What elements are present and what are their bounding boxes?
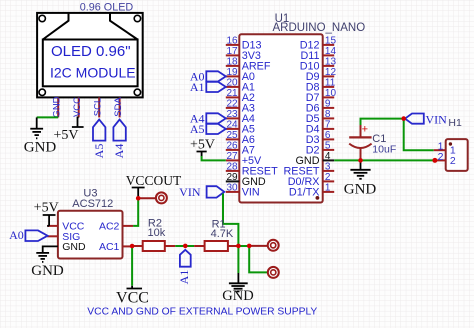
svg-text:ARDUINO_NANO: ARDUINO_NANO <box>273 22 366 34</box>
svg-text:24: 24 <box>226 119 238 130</box>
refdes U3 / ACS712 label <box>72 187 113 210</box>
U1 origin dot <box>316 196 320 200</box>
svg-text:4: 4 <box>325 151 331 162</box>
svg-text:29: 29 <box>226 172 238 183</box>
svg-text:1: 1 <box>325 182 331 193</box>
wire OLED GND to ground <box>37 116 59 118</box>
connector H1 <box>434 117 468 171</box>
svg-text:14: 14 <box>325 46 337 57</box>
svg-text:H1: H1 <box>448 117 462 129</box>
net flag A0 (U1 pin 19) <box>190 70 226 84</box>
wire R1 node down to ground <box>237 246 239 273</box>
U1 left pin numbers 16-30 <box>226 35 238 193</box>
svg-text:17: 17 <box>226 46 238 57</box>
svg-text:9: 9 <box>325 98 331 109</box>
wire +5V to U1 pin 27 <box>202 156 226 160</box>
svg-text:30: 30 <box>226 182 238 193</box>
net flag A0 (U3 SIG) <box>9 228 47 242</box>
svg-text:10: 10 <box>325 88 337 99</box>
power flag VCC <box>116 286 149 307</box>
net flag A1 (node) <box>177 250 191 285</box>
OLED module label "0.96 OLED" <box>80 2 134 14</box>
svg-text:16: 16 <box>226 35 238 46</box>
U1 right pin names <box>284 40 320 199</box>
svg-text:+5V: +5V <box>190 137 215 152</box>
wire U3 GND pin to ground <box>43 246 58 253</box>
OLED pin SCL <box>93 97 104 117</box>
svg-text:VIN: VIN <box>179 185 201 199</box>
svg-text:11: 11 <box>325 77 336 88</box>
svg-text:2: 2 <box>450 155 456 167</box>
pad external VCC <box>249 240 279 251</box>
resistor R1 <box>194 219 238 252</box>
wire U3 AC2 to VCCOUT node <box>133 199 138 226</box>
svg-text:A4: A4 <box>112 144 126 159</box>
net flag A1 (U1 pin 20) <box>190 80 226 94</box>
svg-text:VCC: VCC <box>72 97 83 117</box>
svg-text:GND: GND <box>222 288 253 304</box>
svg-text:VIN: VIN <box>426 112 448 126</box>
svg-text:22: 22 <box>226 98 238 109</box>
svg-text:0.96 OLED: 0.96 OLED <box>80 2 134 14</box>
svg-text:5: 5 <box>325 140 331 151</box>
net flag VIN (H1) <box>405 112 447 126</box>
svg-text:6: 6 <box>325 130 331 141</box>
wire AC1 node down to VCC flag <box>131 246 133 286</box>
OLED mounting holes <box>39 15 141 95</box>
pad external GND <box>268 267 279 278</box>
svg-text:VIN: VIN <box>242 187 260 199</box>
svg-text:A0: A0 <box>9 228 24 242</box>
power flag +5V (OLED) <box>53 117 83 142</box>
svg-text:7: 7 <box>325 119 331 130</box>
wire U1 pin4 GND row <box>334 159 435 161</box>
wire R2 to A1 node <box>175 245 185 247</box>
junction R1 right node <box>236 244 241 249</box>
wire A1 node to R1 <box>185 245 194 247</box>
capacitor C1 <box>349 124 396 161</box>
svg-text:OLED 0.96": OLED 0.96" <box>51 43 131 60</box>
junction H1 pin2 <box>432 158 437 163</box>
svg-text:25: 25 <box>226 130 238 141</box>
OLED pin VCC <box>72 97 83 118</box>
svg-text:3: 3 <box>325 161 331 172</box>
svg-text:12: 12 <box>325 67 337 78</box>
net label VCCOUT <box>126 173 182 199</box>
svg-text:8: 8 <box>325 109 331 120</box>
svg-text:A5: A5 <box>190 122 205 136</box>
svg-text:GND: GND <box>344 182 377 198</box>
svg-text:2: 2 <box>438 151 444 163</box>
svg-text:2: 2 <box>325 172 331 183</box>
junction AC1 node <box>130 244 135 249</box>
svg-text:+5V: +5V <box>34 200 59 215</box>
svg-text:28: 28 <box>226 161 238 172</box>
U1 right pin ticks <box>323 45 335 150</box>
U1 right pin numbers 15-1 <box>325 35 337 193</box>
wire VIN flag down to R1 node <box>223 194 238 246</box>
svg-text:GND: GND <box>52 96 63 117</box>
wire pad node down to external GND pad <box>249 246 267 272</box>
junction pad node <box>247 244 252 249</box>
svg-text:13: 13 <box>325 56 337 67</box>
svg-text:15: 15 <box>325 35 337 46</box>
svg-text:26: 26 <box>226 140 238 151</box>
svg-text:10uF: 10uF <box>372 143 396 155</box>
svg-text:21: 21 <box>226 88 238 99</box>
note text caption <box>87 307 317 318</box>
wire C1 top to VIN node <box>361 119 404 125</box>
OLED module text <box>50 43 136 81</box>
refdes U1 / ARDUINO_NANO label <box>273 13 366 34</box>
U3 pin ticks <box>47 226 133 247</box>
net flag A4 (OLED) <box>112 120 126 159</box>
svg-text:D1/TX: D1/TX <box>289 187 320 199</box>
U1 left pin names <box>242 40 278 199</box>
OLED module outline <box>37 13 143 98</box>
svg-text:10k: 10k <box>148 227 166 239</box>
OLED pin GND <box>52 96 63 117</box>
OLED pin SDA <box>113 97 124 118</box>
U1 left pin ticks <box>226 45 240 171</box>
svg-text:4.7K: 4.7K <box>211 228 234 240</box>
svg-text:A1: A1 <box>177 270 191 285</box>
ground (OLED) <box>30 117 43 138</box>
svg-text:SDA: SDA <box>113 97 124 117</box>
svg-text:ACS712: ACS712 <box>72 198 113 210</box>
ACS712 U3 body <box>58 211 123 259</box>
svg-text:SCL: SCL <box>93 98 104 116</box>
svg-text:19: 19 <box>226 67 238 78</box>
wire R1 node to pad node <box>238 245 249 247</box>
svg-text:VCC: VCC <box>116 290 149 307</box>
svg-text:GND: GND <box>62 241 86 253</box>
power flag +5V (U3) <box>34 200 59 226</box>
junction VIN node <box>401 116 406 121</box>
junction C1 bottom <box>358 158 363 163</box>
net flag A5 (U1 pin 24) <box>190 122 226 136</box>
svg-text:GND: GND <box>24 140 57 156</box>
svg-text:+5V: +5V <box>53 128 78 143</box>
wire U3 AC1 node <box>132 245 143 247</box>
svg-text:20: 20 <box>226 77 238 88</box>
net flag VIN (U1 pin 30) <box>179 185 224 199</box>
power flag +5V (U1 pin 27) <box>190 137 215 156</box>
wire VIN node to H1 pin1 <box>404 119 434 151</box>
junction A1 node <box>183 244 188 249</box>
net flag A4 (U1 pin 23) <box>190 112 226 126</box>
svg-text:23: 23 <box>226 109 238 120</box>
svg-text:18: 18 <box>226 56 238 67</box>
svg-text:GND: GND <box>31 263 64 279</box>
pad VCCOUT <box>138 192 167 203</box>
U3 pin names <box>62 221 119 254</box>
junction VCCOUT node <box>136 196 141 201</box>
arduino nano U1 body <box>239 34 322 202</box>
svg-text:AC2: AC2 <box>99 221 120 233</box>
ground (C1) <box>350 160 370 178</box>
svg-text:27: 27 <box>226 151 238 162</box>
svg-text:AC1: AC1 <box>99 241 120 253</box>
svg-text:+: + <box>362 124 368 136</box>
ground (U3) <box>36 253 49 262</box>
svg-text:A1: A1 <box>190 80 205 94</box>
net flag A5 (OLED) <box>92 120 106 159</box>
svg-text:A5: A5 <box>92 144 106 159</box>
resistor R2 <box>132 218 175 252</box>
svg-text:VCCOUT: VCCOUT <box>126 173 182 188</box>
svg-text:VCC AND GND OF EXTERNAL POWER: VCC AND GND OF EXTERNAL POWER SUPPLY <box>87 307 317 318</box>
ground (R1 node) <box>229 273 248 291</box>
svg-text:I2C MODULE: I2C MODULE <box>50 65 136 81</box>
